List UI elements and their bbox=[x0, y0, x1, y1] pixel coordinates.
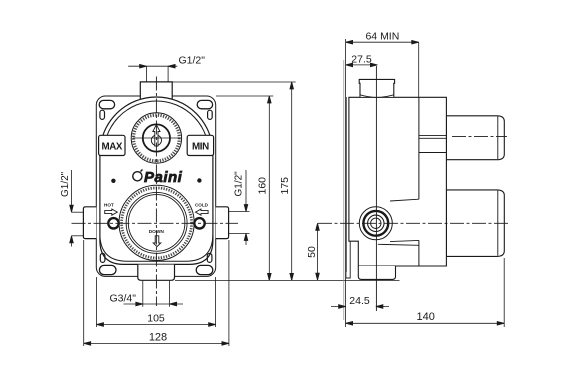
svg-text:160: 160 bbox=[257, 177, 269, 195]
side body main outline bbox=[349, 97, 447, 266]
svg-text:G1/2": G1/2" bbox=[60, 171, 71, 197]
bottom knob inner circle 1 bbox=[126, 192, 187, 253]
dim G1/2 right: extension lines bbox=[229, 211, 250, 213]
dim G1/2 right: dimension line + arrows bbox=[245, 170, 247, 212]
top knob middle circle bbox=[143, 124, 170, 151]
svg-text:27.5: 27.5 bbox=[351, 54, 372, 66]
top knob small circle bbox=[151, 135, 161, 145]
dim 27.5: dimension line + arrows bbox=[346, 64, 378, 66]
dim 160: dimension line + arrows bbox=[268, 96, 270, 280]
bottom-left small slot bbox=[100, 253, 105, 262]
hot port circle bbox=[108, 218, 118, 228]
svg-text:G1/2": G1/2" bbox=[179, 55, 206, 67]
wall line bbox=[343, 60, 345, 320]
dim 175: extension line top bbox=[173, 81, 296, 83]
dim G3/4: dimension line + arrows bbox=[124, 303, 184, 305]
side top stub pipe bbox=[359, 79, 394, 97]
side body notch lines bbox=[378, 199, 419, 245]
screw ring thick bbox=[363, 211, 388, 236]
top-right small slot bbox=[208, 110, 213, 119]
side body rib lines bbox=[419, 135, 447, 152]
shared bottom extension line 175/160 to side view bbox=[175, 279, 400, 281]
screw outer circle bbox=[359, 207, 392, 240]
dim G1/2 top: extension lines bbox=[146, 66, 148, 82]
bottom-right small slot bbox=[207, 253, 212, 262]
svg-text:128: 128 bbox=[149, 332, 167, 344]
svg-text:175: 175 bbox=[279, 177, 291, 195]
top knob knurled ring bbox=[134, 115, 180, 161]
svg-text:COLD: COLD bbox=[195, 203, 209, 208]
svg-text:105: 105 bbox=[147, 313, 165, 325]
dim 128: dimension line + arrows bbox=[84, 342, 229, 344]
dim 64 MIN: dimension line + arrows bbox=[346, 41, 419, 43]
cold arrow bbox=[196, 209, 209, 215]
centerline vertical front bbox=[155, 77, 157, 307]
dim 160: extension line top bbox=[216, 95, 273, 97]
bottom knob outer circle bbox=[119, 185, 194, 260]
side top stub break curve bbox=[360, 95, 394, 98]
top-left small slot bbox=[100, 110, 105, 119]
svg-text:50: 50 bbox=[306, 246, 318, 258]
centerline horizontal ports bbox=[72, 222, 239, 224]
horizontal centerline ports bbox=[318, 222, 508, 224]
extension vertical at wall bbox=[345, 39, 347, 327]
crosshair top knob bbox=[133, 137, 180, 139]
front body outer outline bbox=[100, 97, 213, 264]
horizontal centerline sleeve1 bbox=[452, 136, 507, 138]
sleeve 1 end face line bbox=[497, 117, 499, 160]
front body inner outline top arc bbox=[104, 101, 209, 156]
bottom knob knurled ring bbox=[122, 188, 192, 258]
dim 24.5: dimension line + arrows outside bbox=[331, 306, 389, 308]
vertical centerline stub/screw bbox=[375, 66, 377, 311]
svg-text:140: 140 bbox=[417, 311, 435, 323]
dim G3/4: extension lines bbox=[142, 281, 144, 307]
front body inner outline bottom bbox=[100, 235, 213, 261]
side view dimensions bbox=[316, 39, 505, 327]
left inlet stub bbox=[83, 207, 96, 239]
dim 105: extension lines bbox=[96, 277, 98, 327]
screw mid circle bbox=[368, 215, 384, 231]
dim G1/2 left: extension lines bbox=[72, 211, 84, 213]
dim 64 MIN: extension right bbox=[418, 42, 420, 97]
svg-text:Paini: Paini bbox=[144, 169, 183, 186]
top-left ear slot bbox=[99, 100, 114, 108]
dim 175: dimension line + arrows bbox=[291, 82, 293, 280]
bottom outlet stub G3/4 bbox=[138, 265, 175, 281]
bottom knob inner circle 2 bbox=[128, 195, 185, 252]
svg-text:G3/4": G3/4" bbox=[110, 293, 137, 305]
top knob outer circle bbox=[131, 113, 181, 163]
dim 50: dimension line + arrows bbox=[317, 223, 319, 280]
left dot bbox=[111, 179, 115, 183]
right inlet stub bbox=[216, 207, 229, 239]
side body back step edge bbox=[418, 97, 420, 266]
MAX label box bbox=[99, 135, 125, 155]
right dot bbox=[197, 178, 201, 182]
plate edge-on line with foot bbox=[346, 97, 350, 278]
dimension texts front bbox=[60, 55, 291, 344]
cold port circle bbox=[194, 218, 204, 228]
front view mounting plate bbox=[96, 96, 215, 276]
svg-text:G1/2": G1/2" bbox=[234, 171, 245, 197]
screw inner circle bbox=[371, 218, 381, 228]
bottom-right ear slot bbox=[196, 265, 213, 274]
hot arrow bbox=[105, 209, 118, 215]
MIN label box bbox=[187, 135, 213, 155]
top knob arrow up bbox=[153, 125, 160, 146]
side view centerlines bbox=[318, 66, 508, 311]
front view texts bbox=[102, 142, 210, 236]
top inlet stub G1/2 bbox=[140, 82, 172, 100]
side dimension texts bbox=[306, 31, 435, 324]
dim G1/2 top: arrows bbox=[140, 64, 147, 68]
svg-text:MIN: MIN bbox=[192, 142, 209, 153]
sleeve 1 (top cartridge) bbox=[446, 116, 504, 160]
svg-text:64 MIN: 64 MIN bbox=[365, 31, 399, 43]
dim 140: extension right bbox=[503, 258, 505, 327]
bottom outlet stub side bbox=[358, 266, 395, 279]
down arrow bbox=[153, 236, 161, 247]
dim 140: dimension line + arrows bbox=[346, 322, 505, 324]
sleeve 2 (bottom cartridge) bbox=[446, 190, 504, 257]
dim G1/2 left: dimension line + arrows bbox=[71, 170, 73, 212]
bottom-left ear slot bbox=[99, 265, 116, 274]
dim 128: extension lines bbox=[83, 240, 85, 346]
svg-text:24.5: 24.5 bbox=[349, 295, 370, 307]
svg-text:MAX: MAX bbox=[102, 142, 123, 153]
dim 105: dimension line + arrows bbox=[97, 324, 216, 326]
svg-text:HOT: HOT bbox=[104, 203, 114, 208]
top-right ear slot bbox=[197, 100, 212, 108]
sleeve 2 end face line bbox=[497, 191, 499, 256]
paini logo circle glyph bbox=[133, 170, 143, 181]
dim G1/2 top: dimension line bbox=[128, 65, 177, 67]
